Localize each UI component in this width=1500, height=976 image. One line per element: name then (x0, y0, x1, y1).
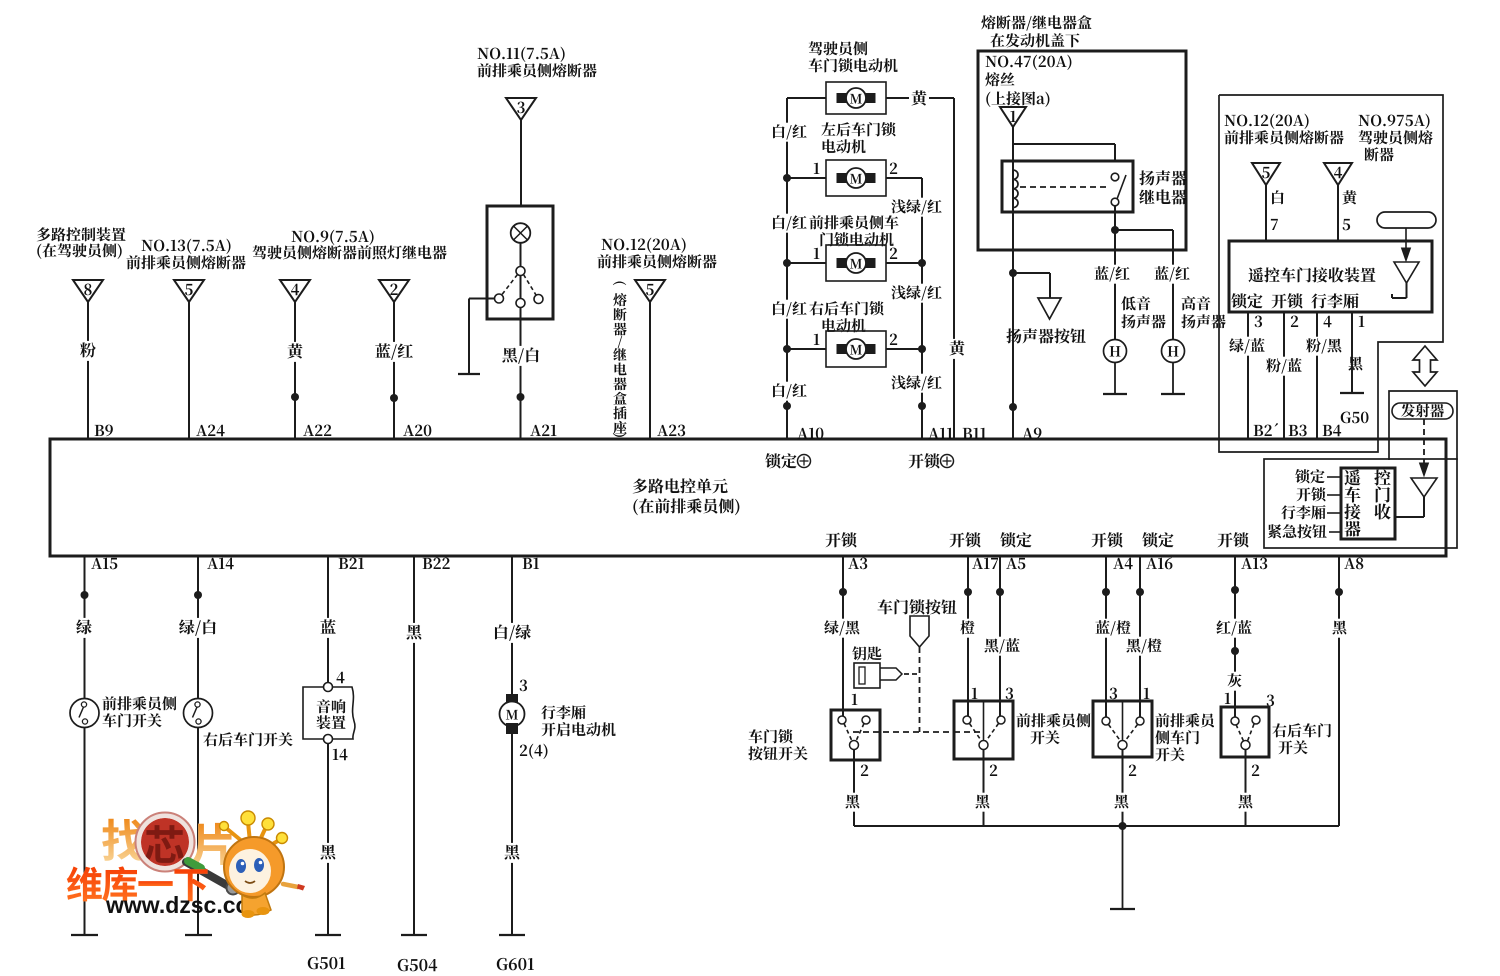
label fuse NO.12 20A (left) (597, 238, 716, 269)
wire A14 to ground (197, 728, 199, 936)
pin 2 of motor4 (890, 334, 897, 345)
transmitter dashed beam (1420, 419, 1429, 476)
fuse NO.47 pin 1 triangle (1000, 107, 1026, 127)
pin 1 of motor4 (814, 334, 820, 345)
switch4 contact left (1231, 717, 1239, 725)
pin label B21 (339, 558, 364, 569)
label 扬声器按钮 (1006, 328, 1085, 343)
junction dot relay output (1111, 226, 1119, 234)
switch common contact circle (516, 267, 525, 276)
branch wire to relay (1013, 144, 1115, 161)
label 白/红 4 (769, 382, 809, 401)
junction dot rail motor4 left (783, 345, 791, 353)
receiver pin 3 wire 绿/蓝 (1248, 312, 1262, 439)
label fuse NO.9 7.5A headlight relay (253, 230, 447, 260)
label pin 3 switch3 (1110, 688, 1117, 700)
audio unit top terminal (324, 683, 333, 692)
relay contact top circle (1111, 173, 1119, 181)
ground B21 (315, 934, 341, 936)
vertical label 熔断器/继电器盒插座 (613, 282, 627, 437)
label 绿/蓝 (1227, 337, 1267, 356)
pin label A10 (797, 428, 823, 440)
label 高音扬声器 (1181, 296, 1225, 328)
motor M left-rear door lock (826, 160, 886, 196)
pin label B3 (1289, 425, 1307, 437)
label 锁定 + dash (1295, 469, 1341, 483)
label audio unit pin 4 (336, 672, 344, 684)
label fuse NO.13 7.5A (126, 239, 245, 270)
door lock button symbol (910, 616, 929, 647)
wire B1 白/绿 (491, 556, 533, 694)
pin label A22 (303, 425, 331, 436)
pin label A11 (928, 428, 952, 439)
right rear door switch box (lock) (1221, 707, 1269, 757)
pin label B22 (423, 558, 450, 569)
label fuse/relay box under hood (981, 15, 1091, 47)
label trunk motor pin 3 (520, 680, 527, 692)
pin label B11 (963, 428, 986, 439)
label pin 2 switch2 (990, 765, 997, 776)
label fuse NO.12 20A (right) (1224, 114, 1343, 145)
junction dot A14 (194, 591, 202, 599)
wire B11 黄 vertical (947, 98, 967, 439)
door lock knob switch box (831, 710, 880, 760)
fuse NO.12 pin 5 triangle (1252, 163, 1280, 185)
wire B21 to ground 黑 (318, 744, 338, 936)
pin label A3 (848, 558, 867, 570)
label trunk motor pin 2(4) (520, 744, 548, 759)
antenna feed arrow (1402, 228, 1411, 261)
label 遥控 receiver (1345, 469, 1391, 485)
label multiplex control unit (driver side) (37, 227, 126, 259)
watermark 维库一下 (67, 866, 208, 901)
label 钥匙 key (852, 646, 881, 660)
fuse NO.9 pin 4 triangle (280, 280, 310, 302)
wire motor4 right to rail2 (886, 348, 922, 350)
wire motor2 left to rail (787, 177, 826, 179)
connector pin 2 triangle (379, 280, 409, 302)
wire trunk motor to ground 黑 (502, 734, 522, 935)
label fuse NO.11 7.5A (477, 47, 596, 78)
pin label A17 (972, 558, 998, 569)
label 锁定 开锁 行李厢 (1231, 293, 1358, 308)
label pin 1 switch2 (972, 688, 978, 699)
label 开锁 + dash (1296, 487, 1341, 501)
wire A3 绿/黑 (822, 556, 862, 716)
label G601 (497, 958, 534, 970)
pin label A21 (530, 425, 556, 436)
junction dot rail motor2 (783, 174, 791, 182)
receiver pin 2 wire 粉/蓝 (1284, 312, 1298, 439)
pin 2 of motor3 (890, 248, 897, 259)
wire A20 蓝/红 (373, 302, 415, 439)
label pin 2 switch4 (1252, 765, 1259, 776)
switch4 lever dashes (1236, 724, 1254, 741)
watermark mascot (220, 811, 306, 918)
label 浅绿/红 3 (889, 374, 944, 393)
label 扬声器继电器 (1139, 170, 1186, 204)
label 白/红 3 (769, 300, 809, 319)
pin label A20 (403, 425, 431, 437)
label pin 1 switch1 (852, 694, 858, 705)
switch2 lever dashes (970, 724, 999, 742)
ground bus wire (854, 825, 1339, 827)
switch3 common circle (1118, 741, 1127, 750)
switch2 contact left (963, 716, 971, 724)
switch bottom contact circle (516, 299, 525, 308)
switch3 contact left (1102, 717, 1110, 725)
label 开锁 above A3 (826, 532, 857, 547)
ground for lamp box (458, 373, 480, 375)
wire switch1 to bus 黑 (843, 750, 862, 827)
junction dot bus (1119, 822, 1127, 830)
switch2 common circle (979, 741, 988, 750)
junction dot A13 lower (1231, 647, 1239, 655)
junction dot on A22 wire (291, 393, 299, 401)
wire A15 to ground (84, 728, 86, 936)
fuse NO.975 pin 4 triangle (1324, 163, 1352, 185)
switch lever dashed right (524, 275, 537, 296)
door lock button dashed link (919, 647, 921, 732)
wire motor4 left to rail (787, 348, 826, 350)
junction dot A4 (1102, 588, 1110, 596)
wire A14 绿/白 (177, 556, 219, 699)
junction dot A5 (996, 588, 1004, 596)
wire A4 蓝/橙 (1093, 556, 1133, 717)
receiver assembly box outline (1264, 459, 1457, 548)
label 器 receiver (1344, 521, 1360, 537)
label 锁定+ inside ECU (765, 453, 810, 468)
motor M right-rear door lock (826, 331, 886, 367)
wire switch2 to bus 黑 (973, 750, 992, 827)
pin label A5 (1006, 558, 1025, 569)
junction dot rail motor3 left (783, 259, 791, 267)
wire to tweeter branch (1115, 230, 1173, 340)
label right-rear door lock motor (809, 301, 883, 332)
relay contact arm (1117, 175, 1126, 199)
wire A24 (188, 302, 190, 439)
label fuse NO.975A (1359, 114, 1433, 162)
label 接收 receiver (1344, 504, 1390, 520)
label 开锁+ inside ECU (909, 453, 954, 468)
wire motor3 right to rail2 (886, 262, 922, 264)
label pin 3 switch2 (1006, 688, 1013, 700)
multiplex control unit box 多路电控单元 (50, 439, 1446, 556)
ground A15 (71, 934, 98, 936)
label 白/红 1 (769, 123, 809, 142)
ground B22 (401, 934, 427, 936)
relay dashed link (1020, 186, 1110, 188)
pin label A13 (1241, 558, 1267, 570)
motor M driver door lock (826, 82, 886, 114)
antenna stub pill (1377, 212, 1436, 228)
label pin 2 switch3 (1129, 765, 1136, 776)
pin label B4 (1323, 425, 1341, 437)
wire switch common to bottom contact (520, 276, 522, 299)
switch4 contact right (1252, 716, 1260, 724)
receiver pin 4 wire 粉/黑 (1317, 312, 1332, 439)
switch2 contact right (997, 716, 1005, 724)
relay contact bottom circle (1111, 198, 1119, 206)
ground woofer (1103, 363, 1127, 395)
label pin 2 switch1 (861, 765, 868, 776)
label 黑 g50 (1349, 356, 1363, 370)
transmitter box outline (1389, 391, 1457, 460)
label switch3 (1155, 713, 1214, 761)
label 粉/黑 (1304, 337, 1344, 356)
label 行李厢 + dash (1281, 505, 1341, 519)
rail wire 浅绿/红 A11 (921, 178, 923, 439)
wire fuse NO.47 down to A9 (1012, 125, 1014, 439)
key symbol (854, 663, 917, 688)
junction dot rail motor3 right (918, 259, 926, 267)
tweeter speaker H (1162, 340, 1185, 363)
right rear door switch (184, 699, 213, 728)
connector pin 8 triangle (73, 280, 103, 302)
fuse NO.12 pin 5 triangle (635, 280, 665, 302)
fuse NO.13 pin 5 triangle (174, 280, 204, 302)
label 浅绿/红 1 (889, 198, 944, 217)
ground A14 (185, 934, 212, 936)
pin label A8 (1344, 558, 1363, 570)
label 遥控车门接收装置 (1248, 267, 1375, 282)
pin label A9 (1022, 428, 1041, 440)
speaker button triangle (1038, 298, 1061, 319)
label G501 (308, 957, 345, 969)
wire left contact to ground (469, 299, 495, 375)
switch3 lever dashes (1109, 725, 1138, 742)
wire lamp to switch common (520, 243, 522, 267)
wire A22 黄 (285, 302, 305, 439)
wire A5 黑/蓝 (982, 556, 1022, 716)
pin 1 of motor2 (814, 163, 820, 174)
label 开锁 锁定 above A4/A16 (1092, 532, 1174, 547)
speaker button branch wire (1013, 273, 1050, 298)
label front passenger door lock motor (809, 215, 898, 246)
wire A8 黑 (1330, 556, 1349, 826)
wire B21 蓝 (318, 556, 338, 683)
pin label A14 (207, 558, 233, 570)
wire A16 黑/橙 (1124, 556, 1164, 717)
junction dot A10 wire bottom (783, 402, 791, 410)
switch3 contact right (1136, 717, 1144, 725)
pin label A15 (91, 558, 117, 570)
label right rear door switch (203, 732, 292, 746)
junction dot on A21 wire (517, 393, 525, 401)
watermark www.dzsc.com (105, 892, 270, 918)
remote door receiver unit box (1229, 241, 1432, 312)
wire motor1 right 黄 (886, 89, 954, 109)
bus ground stem (1122, 826, 1124, 909)
junction dot A16 (1136, 588, 1144, 596)
fuse NO.11 pin 3 triangle (506, 98, 536, 120)
junction dot A9 wire (1009, 403, 1017, 411)
label switch4 (1272, 723, 1331, 754)
label trunk open motor (541, 705, 615, 736)
fuse/relay box outline (978, 51, 1186, 250)
pin 1 of motor3 (814, 248, 820, 259)
pin label A16 (1146, 558, 1172, 570)
switch1 contact left (838, 716, 846, 724)
label door lock knob switch (748, 729, 807, 760)
label pin 3 switch4 (1267, 695, 1274, 707)
transmitter pill 发射器 (1392, 403, 1453, 419)
label 白/红 2 (769, 214, 809, 233)
wire motor1 left to rail (787, 97, 826, 99)
watermark 找芯片 with magnifier (102, 813, 239, 895)
wire switch4 to bus 黑 (1236, 750, 1255, 827)
remote door receiver inner box (1341, 468, 1395, 539)
label G504 (398, 959, 437, 971)
label driver door lock motor (808, 41, 897, 72)
label 浅绿/红 2 (889, 284, 944, 303)
label 开锁 锁定 above A17/A5 (950, 532, 1032, 547)
junction dot A13 upper (1231, 586, 1239, 594)
label left-rear door lock motor (821, 122, 895, 153)
label 粉/蓝 (1264, 357, 1304, 376)
receiver pin 1 wire 黑 (1352, 312, 1364, 392)
junction dot rail motor4 right (918, 345, 926, 353)
junction dot A15 (81, 591, 89, 599)
label fuse NO.47 20A (985, 55, 1071, 107)
label 低音扬声器 (1121, 296, 1165, 328)
pin label B1 (523, 558, 539, 569)
wire A23 (649, 302, 651, 439)
wire from fuse NO.11 to lamp box (520, 120, 522, 206)
pin label A23 (657, 425, 685, 437)
pin label A4 (1113, 558, 1133, 570)
label pin 1 switch3 (1144, 688, 1150, 699)
mechanical dashed link switches (853, 731, 981, 733)
switch1 common circle (850, 741, 859, 750)
wire A15 绿 (74, 556, 94, 699)
switch4 common circle (1241, 741, 1250, 750)
wire A13 红/蓝 灰 (1214, 556, 1254, 717)
junction dot A8 (1335, 588, 1343, 596)
speaker relay box (1002, 161, 1133, 212)
front passenger door switch box (lock) (1093, 701, 1152, 757)
label audio unit pin 14 (333, 749, 348, 761)
lamp/knob switch box (487, 206, 553, 319)
junction dot speaker button branch (1009, 269, 1017, 277)
label front passenger door switch (102, 696, 176, 727)
junction dot A11 wire bottom (918, 402, 926, 410)
label 紧急按钮 + dash (1268, 524, 1341, 538)
receiver antenna symbol (1392, 262, 1419, 298)
pin label B9 (95, 425, 113, 437)
label 开锁 above A13 (1218, 532, 1249, 547)
switch left contact circle (495, 294, 504, 303)
switch right contact circle (534, 295, 543, 304)
wire A17 橙 (958, 556, 977, 716)
motor M front passenger door lock (826, 245, 886, 281)
junction dot A3 (839, 588, 847, 596)
wire B9 粉 (78, 302, 98, 439)
junction dot on A20 wire (390, 394, 398, 402)
front passenger lock switch box (954, 701, 1013, 759)
wire switch3 to bus 黑 (1112, 750, 1131, 827)
switch1 lever dashes (844, 724, 864, 742)
ground tweeter (1161, 363, 1185, 395)
trunk open motor (500, 694, 525, 734)
switch lever dashed left (502, 275, 518, 295)
wire motor2 right to rail2 (886, 177, 922, 179)
label 车门 receiver (1345, 486, 1390, 502)
ground B1 (499, 934, 525, 936)
fusebox B outline (notched) (1219, 95, 1443, 452)
wire relay output (1114, 206, 1116, 230)
ground G50 (1340, 393, 1369, 423)
wire 白 pin7 to receiver (1266, 185, 1284, 241)
audio unit box 音响装置 (303, 687, 355, 739)
label door lock button 车门锁按钮 (878, 599, 957, 614)
audio unit bottom terminal (324, 735, 333, 744)
wire motor3 left to rail (787, 262, 826, 264)
receiver assembly antenna (1395, 478, 1437, 517)
front passenger door switch (70, 699, 99, 728)
bus ground bar (1110, 908, 1135, 910)
pin 2 of motor2 (890, 163, 897, 174)
wire A21 黑/白 (500, 308, 542, 440)
wire B22 黑 (404, 556, 424, 935)
switch2 center bar (983, 701, 985, 741)
lamp symbol (511, 223, 531, 243)
switch1 contact right (862, 716, 870, 724)
relay coil (1013, 170, 1018, 208)
pin label B2´ (1254, 423, 1278, 436)
junction dot A17 (964, 588, 972, 596)
switch3 center bar (1122, 701, 1124, 741)
label 蓝/红 tweeter (1152, 265, 1192, 284)
label pin 1 switch4 (1225, 693, 1231, 704)
label front passenger lock switch (1016, 713, 1090, 744)
wireless link double arrow (1413, 346, 1437, 386)
rail wire 白/红 A10 (786, 98, 788, 439)
pin label A24 (196, 425, 224, 437)
woofer speaker H (1104, 340, 1127, 363)
wire woofer 蓝/红 (1092, 230, 1132, 340)
wire 黄 pin5 to receiver (1338, 185, 1357, 241)
